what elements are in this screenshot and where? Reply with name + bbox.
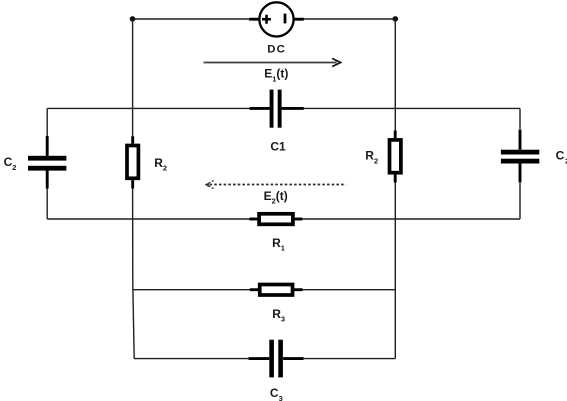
wire mid horizontal y219 right segment <box>302 218 520 220</box>
wire bottom horizontal y358 right segment <box>303 358 395 360</box>
wire horizontal y289 left segment <box>133 289 250 291</box>
wire left outer vertical x47 bottom segment <box>46 188 48 219</box>
resistor R2 right <box>390 131 401 183</box>
wire mid horizontal y219 left segment <box>47 218 249 220</box>
current source U1 DC <box>249 2 304 36</box>
wire left outer vertical x47 top segment <box>46 108 48 136</box>
wire right inner vertical x395 top segment <box>394 19 396 131</box>
capacitor C2 right <box>501 130 539 182</box>
resistor R2 left <box>127 136 138 188</box>
wire mid horizontal y108 right segment <box>304 107 520 109</box>
arrow E2 direction dashed <box>205 181 346 189</box>
wire right outer vertical x520 top segment <box>519 108 521 129</box>
capacitor C2 left <box>28 136 66 189</box>
wire left inner vertical x132 bottom segment <box>132 188 134 289</box>
wire top horizontal right segment <box>304 18 396 20</box>
capacitor C3 <box>249 340 304 378</box>
wire mid horizontal y108 left segment <box>47 107 250 109</box>
svg-text:DC: DC <box>267 43 286 55</box>
wire top horizontal left segment <box>133 18 250 20</box>
arrow E1 direction <box>204 58 341 66</box>
node junction dot right <box>393 16 399 22</box>
svg-text:C1: C1 <box>270 140 286 154</box>
node junction dot left <box>130 16 136 22</box>
wire right inner vertical x395 bottom segment <box>394 182 396 358</box>
wire left inner vertical x133 lowest segment <box>133 290 134 359</box>
resistor R1 <box>249 214 302 225</box>
capacitor C1 <box>250 90 304 128</box>
wire bottom horizontal y358 left segment <box>134 358 249 360</box>
wire horizontal y289 right segment <box>303 289 396 291</box>
resistor R3 <box>250 285 303 296</box>
wire left inner vertical x132 top segment <box>132 19 134 136</box>
wire right outer vertical x520 bottom segment <box>519 182 521 219</box>
